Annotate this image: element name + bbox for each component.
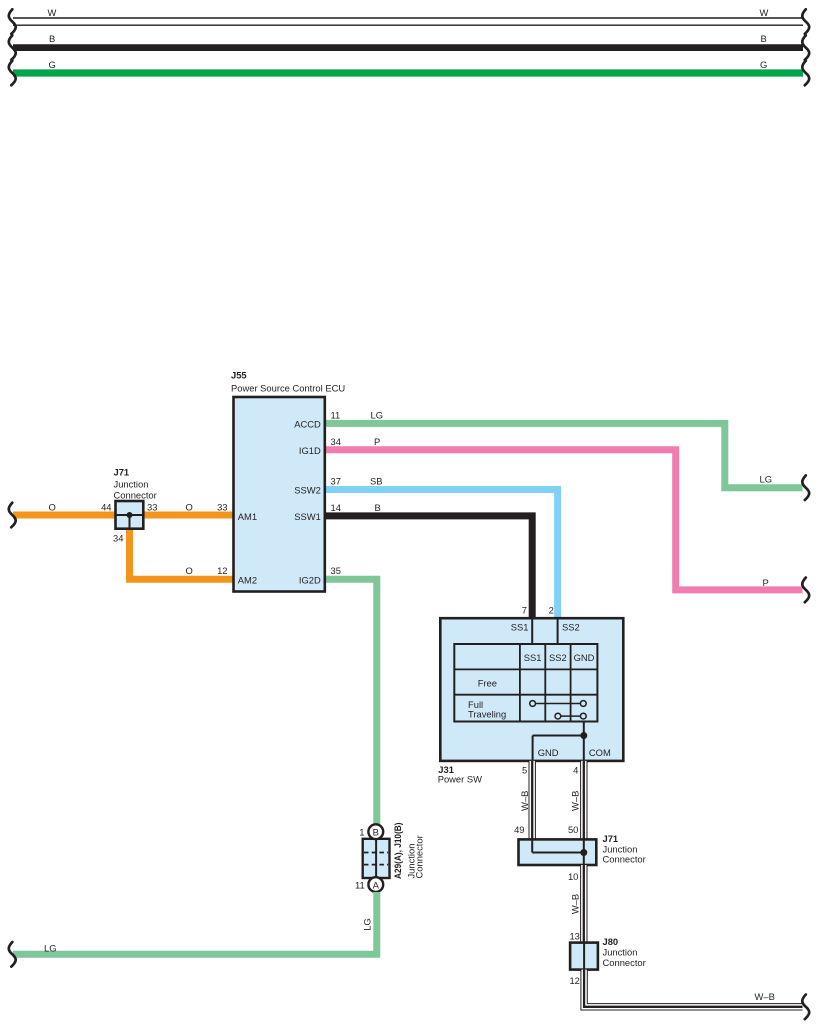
break symbol W-B right — [802, 995, 809, 1020]
svg-text:11: 11 — [355, 880, 365, 891]
wire W-B COM down — [580, 761, 587, 840]
wire W-B J71 to J80 — [580, 865, 587, 943]
svg-text:34: 34 — [331, 436, 341, 447]
svg-text:LG: LG — [44, 943, 57, 954]
svg-text:Free: Free — [478, 678, 497, 689]
svg-text:Connector: Connector — [413, 835, 424, 878]
wire GND internal — [533, 722, 584, 761]
svg-text:LG: LG — [362, 918, 373, 931]
ECU J55 — [234, 397, 325, 592]
svg-text:AM1: AM1 — [238, 511, 257, 522]
svg-text:44: 44 — [101, 502, 111, 513]
svg-text:5: 5 — [522, 765, 527, 776]
svg-text:34: 34 — [113, 533, 123, 544]
wire LG bottom — [13, 892, 377, 954]
svg-text:14: 14 — [331, 502, 341, 513]
svg-text:W: W — [760, 7, 769, 18]
switch contact SS1-GND — [530, 701, 587, 707]
svg-text:Power SW: Power SW — [438, 774, 482, 785]
svg-text:Connector: Connector — [603, 854, 646, 865]
wire W-B GND down — [529, 761, 536, 840]
svg-text:4: 4 — [573, 765, 578, 776]
svg-text:W–B: W–B — [570, 791, 581, 811]
svg-text:50: 50 — [568, 824, 578, 835]
break symbol LG left — [9, 942, 16, 967]
break symbol B right — [802, 35, 809, 60]
break symbol P right — [802, 578, 809, 603]
svg-text:W–B: W–B — [755, 991, 775, 1002]
bus wire B — [13, 44, 803, 51]
break symbol LG right — [802, 475, 809, 500]
svg-text:A29(A), J10(B): A29(A), J10(B) — [392, 823, 403, 880]
terminal A circle — [368, 877, 383, 892]
svg-text:W–B: W–B — [570, 894, 581, 914]
terminal B circle — [368, 824, 383, 839]
svg-text:37: 37 — [331, 476, 341, 487]
svg-text:W–B: W–B — [519, 791, 530, 811]
svg-text:G: G — [760, 59, 767, 70]
svg-text:ACCD: ACCD — [294, 418, 321, 429]
svg-text:Junction: Junction — [603, 947, 638, 958]
svg-text:Power Source Control ECU: Power Source Control ECU — [231, 383, 345, 394]
svg-text:Traveling: Traveling — [468, 709, 506, 720]
svg-text:13: 13 — [569, 931, 579, 942]
svg-text:SS2: SS2 — [562, 622, 580, 633]
svg-text:7: 7 — [522, 605, 527, 616]
svg-text:AM2: AM2 — [238, 574, 257, 585]
wire SS1 internal — [531, 618, 533, 644]
svg-text:Connector: Connector — [603, 957, 646, 968]
svg-text:IG2D: IG2D — [299, 574, 321, 585]
svg-text:33: 33 — [217, 502, 227, 513]
wire O left segment — [13, 512, 116, 519]
svg-text:G: G — [49, 59, 56, 70]
svg-text:11: 11 — [331, 410, 341, 421]
svg-text:LG: LG — [371, 410, 384, 421]
svg-text:12: 12 — [569, 975, 579, 986]
junction connector J71 left box — [116, 501, 144, 529]
junction connector J71 lower — [519, 839, 597, 865]
svg-text:Connector: Connector — [114, 490, 157, 501]
break symbol O left — [9, 503, 16, 528]
svg-text:SS1: SS1 — [524, 652, 542, 663]
wire LG ACCD — [325, 423, 803, 487]
svg-text:GND: GND — [574, 652, 595, 663]
svg-text:LG: LG — [760, 474, 773, 485]
break symbol B left — [9, 35, 16, 60]
svg-text:Junction: Junction — [114, 479, 149, 490]
svg-text:IG1D: IG1D — [299, 445, 321, 456]
svg-text:J71: J71 — [114, 467, 130, 478]
svg-text:J55: J55 — [231, 370, 247, 381]
wire SB SSW2 — [325, 490, 558, 619]
svg-text:12: 12 — [217, 565, 227, 576]
bus wire W — [13, 18, 803, 25]
svg-text:49: 49 — [514, 824, 524, 835]
power switch J31 — [440, 618, 623, 761]
wire SS2 internal — [557, 618, 559, 644]
svg-text:1: 1 — [359, 827, 364, 838]
svg-text:O: O — [186, 565, 193, 576]
svg-text:SSW2: SSW2 — [294, 484, 321, 495]
svg-text:33: 33 — [147, 502, 157, 513]
svg-text:B: B — [49, 33, 55, 44]
svg-text:J80: J80 — [603, 936, 619, 947]
svg-text:SSW1: SSW1 — [294, 511, 321, 522]
junction connector J80 — [570, 943, 598, 970]
break symbol W left — [9, 9, 16, 34]
svg-text:P: P — [763, 577, 769, 588]
svg-text:COM: COM — [589, 747, 611, 758]
svg-text:P: P — [374, 436, 380, 447]
svg-text:SS2: SS2 — [549, 652, 567, 663]
wire O to AM2 — [130, 527, 234, 579]
svg-text:SS1: SS1 — [511, 622, 529, 633]
svg-text:B: B — [761, 33, 767, 44]
svg-text:GND: GND — [538, 747, 559, 758]
svg-text:O: O — [49, 502, 56, 513]
switch table J31 — [454, 644, 597, 722]
break symbol G right — [802, 61, 809, 86]
break symbol G left — [9, 61, 16, 86]
svg-text:A: A — [373, 879, 380, 890]
switch contact SS2-GND — [555, 713, 586, 719]
node COM junction — [580, 732, 587, 739]
svg-text:2: 2 — [549, 605, 554, 616]
wire O to AM1 — [143, 512, 233, 519]
svg-text:J71: J71 — [603, 833, 619, 844]
svg-text:10: 10 — [568, 871, 578, 882]
svg-text:W: W — [48, 7, 57, 18]
wire LG IG2D down — [325, 579, 377, 824]
svg-text:SB: SB — [370, 476, 383, 487]
svg-text:O: O — [186, 502, 193, 513]
wire B SSW1 — [325, 516, 532, 618]
wire P IG1D — [325, 450, 803, 590]
wire W-B to right edge — [584, 970, 802, 1007]
junction connector A29(A) J10(B) — [363, 839, 390, 878]
break symbol W right — [802, 9, 809, 34]
bus wire G — [13, 69, 803, 76]
svg-text:B: B — [375, 502, 381, 513]
svg-text:35: 35 — [331, 565, 341, 576]
svg-text:B: B — [373, 826, 379, 837]
